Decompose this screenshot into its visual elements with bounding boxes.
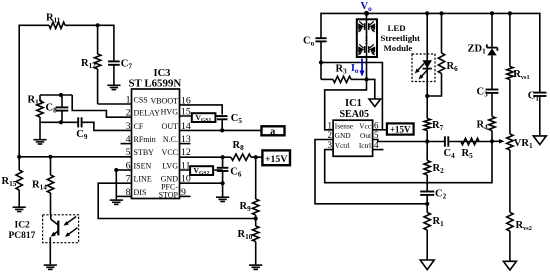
capacitor C6 — [217, 157, 242, 183]
svg-text:CSS: CSS — [134, 95, 148, 104]
svg-text:1: 1 — [126, 94, 131, 105]
resistor Rvs1 — [507, 13, 530, 134]
node junction R6-R7 — [425, 94, 429, 98]
capacitor C7 — [108, 25, 132, 85]
wire module node to ground — [367, 79, 375, 99]
ground triangle under C1 — [533, 136, 546, 145]
pin 2 GND wire — [315, 140, 427, 204]
node junction Out-R7-R2 — [425, 139, 429, 143]
svg-text:LED: LED — [388, 23, 406, 33]
resistor R4 — [477, 117, 496, 142]
capacitor C8 — [46, 95, 69, 122]
svg-text:PC817: PC817 — [9, 231, 36, 241]
resistor R11 — [46, 13, 65, 29]
annotation box VGS2 — [190, 166, 213, 176]
node junction GND-C6 — [221, 181, 225, 185]
potentiometer VR1 — [507, 134, 533, 212]
svg-text:1: 1 — [328, 120, 333, 130]
optocoupler LED dashed box — [412, 54, 435, 82]
svg-text:Streetlight: Streetlight — [381, 33, 420, 43]
wire R13-C8 top — [40, 94, 72, 96]
svg-text:VBOOT: VBOOT — [150, 96, 178, 105]
capacitor C5 — [217, 113, 242, 130]
optocoupler IC2 PC817 dashed box — [43, 215, 79, 243]
IC3 left pin numbers and names — [126, 94, 161, 197]
svg-text:IC2: IC2 — [15, 221, 31, 231]
svg-text:HVG: HVG — [161, 107, 179, 116]
svg-text:a: a — [270, 127, 275, 138]
light arrows into PC817 — [64, 217, 78, 237]
ground under PC817 — [44, 265, 57, 269]
node junction C5-OUT — [220, 128, 224, 132]
zener diode ZD1 — [468, 13, 498, 88]
node junction R8-R9 — [254, 155, 258, 159]
wire R12 to pin 1 CSS — [98, 103, 132, 105]
label IC1 — [345, 98, 362, 109]
pin 3 Vctrl wire — [325, 141, 492, 182]
IC1 pin numbers and names — [328, 120, 380, 150]
label Vo — [361, 1, 373, 13]
label SEA05 — [340, 109, 369, 120]
svg-text:Isense: Isense — [335, 121, 353, 130]
svg-text:Module: Module — [384, 43, 413, 53]
svg-text:STOP: STOP — [159, 191, 179, 200]
svg-text:ST L6599N: ST L6599N — [129, 78, 182, 90]
resistor R15 — [2, 157, 23, 207]
capacitor C9 — [76, 117, 88, 141]
node junction R5-R4-VR1 — [490, 139, 494, 143]
ground triangle under Rvs2 — [503, 261, 516, 270]
pin 4 RFmin stub — [121, 143, 132, 145]
resistor Rvs2 — [507, 212, 532, 261]
resistor R12 — [81, 25, 101, 104]
svg-text:Vcc: Vcc — [359, 121, 372, 130]
svg-text:DIS: DIS — [134, 188, 147, 197]
wire top-left rail — [19, 24, 114, 26]
node junction bus-R15 — [17, 155, 21, 159]
power +15V box right — [387, 123, 414, 134]
ground under R10 — [249, 265, 262, 269]
capacitor C2 — [420, 189, 446, 204]
LED group 1 in module — [358, 21, 375, 32]
label ST L6599N — [129, 78, 182, 90]
pin 5 Out wire — [373, 140, 492, 142]
ground under C7 — [107, 85, 120, 89]
svg-text:ISEN: ISEN — [134, 161, 152, 170]
node junction VCC-C6 — [221, 155, 225, 159]
LED streetlight module box — [357, 13, 377, 57]
label IC3 — [154, 68, 171, 79]
pin 4 Ictrl stub — [373, 149, 384, 151]
node junction module-R3 — [364, 77, 368, 81]
wire STBY bus — [19, 156, 131, 158]
wire left vertical rail — [18, 25, 20, 157]
wire C8 top to pin 2 DELAY — [72, 95, 131, 117]
ellipsis dots in module — [365, 36, 367, 44]
wire C9 to pin 3 CF — [82, 122, 132, 130]
pin 11 LVG wire — [180, 169, 223, 171]
node junction opto — [425, 11, 429, 15]
svg-text:IC1: IC1 — [345, 98, 362, 109]
svg-text:Vctrl: Vctrl — [335, 141, 350, 150]
node junction Rvs1 — [508, 11, 512, 15]
pin 10 GND wire — [180, 182, 223, 184]
pin 6 Vcc wire — [373, 129, 387, 131]
ground triangle under R1 — [420, 260, 434, 270]
svg-text:VCC: VCC — [162, 148, 178, 157]
pin 15 HVG wire — [180, 115, 223, 117]
node junction Co — [319, 60, 323, 64]
resistor R5 — [461, 138, 479, 160]
current arrow Io — [351, 59, 365, 77]
svg-text:+15V: +15V — [265, 154, 287, 165]
ground under C6 — [216, 183, 229, 201]
svg-text:2: 2 — [126, 108, 131, 119]
svg-text:LVG: LVG — [162, 161, 178, 170]
wire module bottom — [366, 57, 368, 79]
capacitor Co — [303, 13, 327, 63]
IC3 right pin numbers and names — [150, 95, 190, 199]
light arrows from opto LED — [415, 64, 428, 80]
wire module node to Isense — [325, 79, 367, 129]
pin 13 N.C. stub — [180, 143, 191, 145]
node junction bus-R14 — [48, 155, 52, 159]
wire Co node to Vcc — [321, 63, 382, 130]
svg-text:DELAY: DELAY — [134, 109, 161, 118]
node junction C8 bottom — [59, 120, 63, 124]
svg-text:Out: Out — [360, 131, 371, 140]
wire top-right rail — [321, 12, 540, 14]
node junction C2-R1-GND — [425, 202, 429, 206]
pin 16 VBOOT wire — [180, 105, 223, 115]
svg-text:RFmin: RFmin — [134, 135, 156, 144]
ground triangle near module — [369, 99, 381, 107]
resistor R3 — [321, 63, 367, 83]
wire R13-C8 bottom — [40, 121, 78, 123]
svg-text:+15V: +15V — [390, 124, 411, 134]
node a box — [262, 126, 285, 137]
ground under DIS — [110, 200, 123, 204]
resistor R10 — [238, 219, 259, 265]
svg-text:GND: GND — [335, 131, 351, 140]
capacitor C3 — [477, 87, 499, 117]
svg-text:3: 3 — [328, 140, 333, 150]
pin 12 VCC wire — [180, 156, 263, 158]
power +15V box left — [262, 150, 290, 165]
resistor R6 — [427, 13, 458, 96]
pin 14 OUT wire — [180, 129, 262, 131]
resistor R2 — [424, 142, 444, 192]
LED of optocoupler — [422, 60, 432, 68]
annotation box VGS1 — [192, 113, 216, 123]
svg-text:6: 6 — [374, 120, 379, 130]
capacitor C1 — [528, 13, 547, 136]
svg-text:2: 2 — [328, 130, 333, 140]
node junction R13-C8 top — [59, 93, 63, 97]
label LED Streetlight Module — [381, 23, 420, 53]
svg-text:N.C.: N.C. — [163, 135, 178, 144]
resistor R13 — [28, 95, 44, 123]
ground under R15 — [13, 207, 26, 211]
svg-text:Ictrl: Ictrl — [359, 141, 371, 150]
node junction pin6 — [114, 168, 118, 172]
pin 7 LINE wire — [98, 183, 256, 218]
node junction R11-R12 — [96, 23, 100, 27]
node junction ZD1 — [490, 11, 494, 15]
pin 9 PFC-STOP stub — [180, 195, 191, 197]
node junction R9-R10-LINE — [254, 216, 258, 220]
ground under R13 — [33, 122, 46, 144]
svg-text:CF: CF — [134, 122, 144, 131]
pin 6 ISEN wire — [116, 169, 131, 171]
resistor R1 — [424, 204, 444, 260]
op-amp IC3 ST L6599N box — [132, 89, 180, 199]
pin 8 DIS wire — [116, 195, 131, 197]
resistor R7 — [424, 96, 444, 142]
svg-text:OUT: OUT — [162, 122, 179, 131]
resistor R8 — [231, 140, 251, 160]
svg-text:STBY: STBY — [134, 148, 155, 157]
transistor Q of PC817 — [50, 215, 58, 265]
capacitor C4 — [444, 136, 456, 160]
svg-text:SEA05: SEA05 — [340, 109, 369, 120]
LED group 2 in module — [358, 44, 375, 55]
resistor R9 — [240, 157, 259, 218]
wire opto column — [426, 13, 428, 96]
label IC2 — [15, 221, 31, 231]
wire pin6 to pin8 — [115, 170, 117, 199]
label PC817 — [9, 231, 36, 241]
svg-text:5: 5 — [374, 130, 379, 140]
node junction R6 — [439, 11, 443, 15]
svg-text:5: 5 — [126, 147, 131, 158]
node Vo junction — [364, 11, 369, 16]
svg-text:3: 3 — [126, 121, 131, 132]
op-amp IC1 SEA05 box — [333, 120, 373, 156]
svg-text:LINE: LINE — [134, 175, 152, 184]
wiper arrow into VR1 — [492, 139, 505, 144]
resistor R14 — [32, 157, 54, 215]
